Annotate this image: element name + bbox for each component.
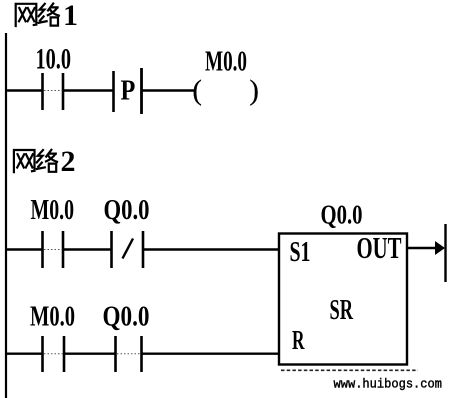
- svg-text:10.0: 10.0: [36, 43, 72, 76]
- svg-text:Q0.0: Q0.0: [321, 199, 363, 230]
- contact M0.0 (rung3): [30, 302, 75, 373]
- svg-text:S1: S1: [290, 236, 311, 268]
- contact Q0.0 normally-closed (rung2): [104, 195, 150, 268]
- chars 网络: [14, 150, 57, 172]
- contact M0.0 (rung2): [31, 195, 75, 268]
- svg-text:M0.0: M0.0: [30, 302, 75, 333]
- svg-text:M0.0: M0.0: [205, 47, 247, 78]
- contact P (positive edge): [114, 68, 142, 114]
- wire from SR box OUT to right rail with arrowhead: [407, 241, 445, 255]
- svg-text:SR: SR: [330, 295, 354, 326]
- wire rung3 from Q0.0 to SR box R input: [142, 353, 280, 355]
- svg-text:1: 1: [63, 0, 78, 32]
- svg-text:(: (: [193, 76, 202, 107]
- wire between M0.0 and Q0.0 (rung3): [64, 353, 115, 355]
- wire rung1 from rail to first contact: [6, 89, 42, 91]
- chars 网络: [16, 4, 59, 26]
- svg-text:R: R: [292, 325, 305, 355]
- wire rung3 from rail to contact M0.0: [6, 353, 42, 355]
- network label 网络 1: [16, 0, 78, 32]
- svg-text:): ): [250, 76, 259, 107]
- wire rung2 from rail to contact M0.0: [6, 248, 42, 250]
- svg-text:P: P: [121, 75, 136, 107]
- scan artifact dashed smear under SR box bottom: [281, 369, 418, 371]
- SR flip-flop box: [279, 230, 407, 365]
- left power rail: [5, 33, 7, 398]
- wire rung2 from Q0.0 to SR box S1 input: [143, 248, 279, 250]
- svg-text:2: 2: [61, 145, 76, 178]
- wire from P contact to coil: [142, 89, 195, 91]
- coil M0.0: [193, 47, 259, 107]
- wire between M0.0 and Q0.0 (rung2): [63, 248, 111, 250]
- right power rail: [444, 224, 446, 282]
- contact 10.0: [36, 43, 72, 111]
- svg-text:M0.0: M0.0: [31, 195, 75, 226]
- network label 网络 2: [14, 145, 76, 178]
- svg-text:Q0.0: Q0.0: [104, 195, 150, 226]
- svg-text:Q0.0: Q0.0: [103, 302, 150, 333]
- svg-text:OUT: OUT: [357, 230, 402, 265]
- contact Q0.0 (rung3): [103, 302, 150, 373]
- wire between contact 10.0 and P contact: [63, 89, 113, 91]
- svg-text:www.huibogs.com: www.huibogs.com: [334, 378, 443, 392]
